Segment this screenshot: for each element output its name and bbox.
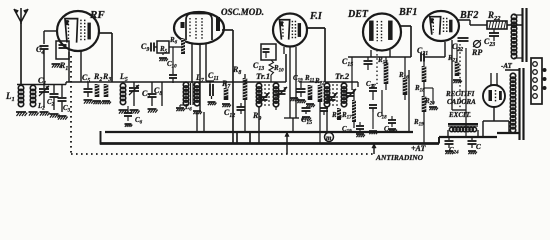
svg-text:ANTIRADINO: ANTIRADINO — [375, 153, 424, 162]
svg-text:F.I: F.I — [309, 11, 323, 22]
svg-text:CADORA: CADORA — [447, 98, 476, 106]
svg-text:RF: RF — [89, 9, 105, 21]
svg-text:DET: DET — [347, 9, 369, 20]
svg-text:RECTIFI: RECTIFI — [445, 90, 475, 98]
svg-text:Tr.2: Tr.2 — [335, 71, 350, 81]
svg-text:+AT: +AT — [411, 144, 426, 153]
svg-text:-AT: -AT — [501, 62, 513, 70]
svg-text:Tr.1: Tr.1 — [256, 71, 270, 81]
svg-text:m: m — [326, 134, 332, 142]
svg-text:RP: RP — [471, 48, 482, 57]
svg-text:C: C — [476, 143, 481, 151]
svg-text:EXCIT.: EXCIT. — [448, 111, 471, 119]
svg-text:OSC.MOD.: OSC.MOD. — [221, 7, 264, 17]
svg-text:BF1: BF1 — [398, 7, 417, 18]
